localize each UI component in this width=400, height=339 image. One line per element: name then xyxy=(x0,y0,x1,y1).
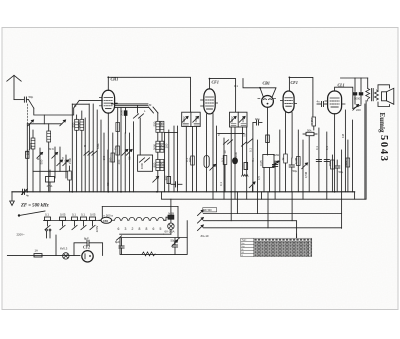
svg-text:150: 150 xyxy=(103,219,108,223)
svg-text:550: 550 xyxy=(72,122,76,127)
svg-text:300: 300 xyxy=(64,159,68,164)
svg-text:n 500 a: n 500 a xyxy=(104,214,114,218)
wire vertical xyxy=(96,110,98,192)
mains wire xyxy=(7,254,80,256)
capacitor tone 2 xyxy=(359,78,363,104)
transformer secondary zigzag xyxy=(375,90,379,100)
IF transformer 2 box xyxy=(182,112,201,126)
svg-text:0,1: 0,1 xyxy=(315,146,319,150)
oscillator box xyxy=(138,155,153,171)
capacitor on bus xyxy=(22,189,28,195)
coil L2 oscillator xyxy=(47,124,51,192)
coil IF1 secondary xyxy=(160,121,164,141)
resistor filter zigzag xyxy=(142,252,155,256)
wire vertical xyxy=(252,123,254,192)
svg-text:300: 300 xyxy=(160,121,164,126)
resistor R right xyxy=(346,140,350,192)
wire vertical xyxy=(230,127,232,192)
NSB resistor xyxy=(164,215,174,223)
svg-text:100: 100 xyxy=(102,155,106,160)
variable capacitor gang 2 xyxy=(52,147,58,178)
speaker xyxy=(378,85,394,107)
svg-text:5n: 5n xyxy=(251,158,255,162)
svg-text:6V0,3: 6V0,3 xyxy=(60,247,68,251)
capacitor C coupling black xyxy=(121,108,127,192)
switch heater a xyxy=(116,236,121,240)
volume pot box xyxy=(263,155,279,168)
coil zigzag horizontal xyxy=(242,174,249,176)
mains plug leads xyxy=(46,229,51,238)
svg-text:3002: 3002 xyxy=(182,116,186,123)
svg-text:4n: 4n xyxy=(26,194,30,198)
wire CB1 down xyxy=(267,107,269,155)
bus 2 lower xyxy=(162,101,367,200)
wire output top xyxy=(341,77,368,79)
svg-text:50: 50 xyxy=(106,182,110,186)
table row labels xyxy=(242,240,248,258)
wire filter rect feed xyxy=(186,221,188,238)
svg-text:4711: 4711 xyxy=(47,184,53,188)
resistor R ant xyxy=(26,151,29,158)
title Eumig 5043 xyxy=(378,113,389,162)
svg-text:50µ: 50µ xyxy=(171,239,176,243)
wire CH1 cathode down xyxy=(107,113,109,192)
svg-text:3000: 3000 xyxy=(160,143,164,150)
wire hline 5 xyxy=(203,221,296,238)
wire CF1 top loop xyxy=(210,79,236,112)
wire vertical xyxy=(173,126,175,192)
svg-text:0,1: 0,1 xyxy=(249,148,253,152)
svg-text:300: 300 xyxy=(164,175,168,180)
capacitor C pad xyxy=(171,182,182,187)
coil L4 xyxy=(80,111,84,192)
resistor R cath cl1 xyxy=(331,155,335,192)
switch wafer 2 xyxy=(88,104,93,192)
svg-text:3: 3 xyxy=(125,227,127,231)
cap c l1 xyxy=(316,128,321,192)
wire vertical xyxy=(185,127,187,192)
svg-text:0,1: 0,1 xyxy=(72,213,76,217)
svg-text:5000: 5000 xyxy=(120,109,124,116)
table connection line xyxy=(296,234,298,238)
svg-text:50p: 50p xyxy=(29,95,34,99)
wire vertical left xyxy=(26,124,28,192)
wire vertical lamp top xyxy=(170,199,172,215)
tube electrode stubs xyxy=(99,98,345,107)
ground symbol left xyxy=(10,192,15,206)
svg-text:M K: M K xyxy=(49,147,54,151)
wire vertical 345 xyxy=(344,110,346,192)
svg-text:5000: 5000 xyxy=(234,151,238,158)
wire CH1 grid line xyxy=(79,99,102,101)
wire long vertical right xyxy=(364,104,366,199)
svg-text:1500: 1500 xyxy=(68,157,72,164)
wire vertical xyxy=(157,152,159,159)
wire vertical xyxy=(157,171,159,192)
main ground bus xyxy=(12,191,355,193)
svg-text:220: 220 xyxy=(344,160,348,165)
resistor R if xyxy=(191,127,195,192)
svg-text:5000: 5000 xyxy=(354,97,361,101)
svg-text:8µF: 8µF xyxy=(115,240,120,244)
svg-text:50µ: 50µ xyxy=(339,170,344,174)
button 2 xyxy=(60,217,66,230)
svg-text:220V: 220V xyxy=(95,226,99,233)
trimmer tone xyxy=(353,104,361,110)
fuse mains xyxy=(34,254,42,257)
svg-text:1002: 1002 xyxy=(241,116,245,123)
trimmer below xyxy=(153,176,159,182)
wire vertical xyxy=(216,126,218,192)
switch contacts det xyxy=(241,139,252,146)
svg-text:ZG-10: ZG-10 xyxy=(201,234,209,238)
svg-text:50: 50 xyxy=(128,156,132,160)
wire vertical xyxy=(196,127,198,192)
svg-text:8: 8 xyxy=(139,227,141,231)
tube CH1 envelope xyxy=(102,90,115,113)
variable capacitor gang 4 xyxy=(33,155,69,178)
wire heater return ext xyxy=(164,233,171,235)
wire CB1 funnel xyxy=(260,88,276,97)
wire heater return xyxy=(120,233,164,235)
resistor R grid leak xyxy=(312,117,316,130)
wire vertical filter feed xyxy=(177,207,179,238)
CY2 anode loop xyxy=(74,243,103,256)
svg-text:Uf: Uf xyxy=(242,252,245,254)
resistor R coupling horizontal xyxy=(303,132,317,135)
coil column mid xyxy=(167,130,171,192)
wire vertical xyxy=(29,125,31,150)
wire vertical xyxy=(279,130,281,192)
wire stubs below bus xyxy=(213,192,327,228)
button 3 xyxy=(72,217,78,230)
svg-text:4n: 4n xyxy=(317,100,321,104)
svg-text:0,05: 0,05 xyxy=(259,160,263,166)
wire CL1 top xyxy=(335,87,353,108)
switch heater b xyxy=(174,238,179,242)
tiny rotated value labels xyxy=(26,109,349,232)
svg-text:8: 8 xyxy=(146,227,148,231)
svg-text:0,1M: 0,1M xyxy=(310,118,314,125)
svg-text:550: 550 xyxy=(153,121,157,126)
wire CF1b top loop xyxy=(289,77,313,116)
cap c l2 xyxy=(324,132,329,192)
trimmer pad 2 xyxy=(126,133,132,192)
IF transformer 3 box xyxy=(230,112,248,127)
wire vertical xyxy=(111,133,115,192)
switch band selector to CH1 grid xyxy=(74,100,80,108)
svg-text:220: 220 xyxy=(356,108,361,112)
wire vertical xyxy=(246,127,248,192)
tube CL1 envelope xyxy=(328,91,342,114)
antenna xyxy=(7,75,24,99)
svg-text:0,1: 0,1 xyxy=(185,158,189,162)
svg-text:6V 0,3A: 6V 0,3A xyxy=(165,230,175,234)
svg-text:1MΩ: 1MΩ xyxy=(273,153,279,157)
svg-text:10p: 10p xyxy=(255,117,260,121)
wire band bus xyxy=(72,103,89,105)
resistor R osc xyxy=(68,166,72,192)
wire CF1b cathode xyxy=(285,113,287,154)
coil IF1 primary xyxy=(156,113,160,132)
variable capacitor gang 1 xyxy=(37,148,43,192)
svg-text:500: 500 xyxy=(40,159,44,164)
switch ZF contact xyxy=(18,211,45,216)
capacitor avc xyxy=(273,165,278,167)
svg-text:3002: 3002 xyxy=(230,116,234,123)
svg-text:0,1: 0,1 xyxy=(221,158,225,162)
coil osc A xyxy=(156,141,164,152)
svg-text:220V~: 220V~ xyxy=(17,233,26,237)
wire hline 3 xyxy=(102,206,178,208)
coil osc B xyxy=(156,160,164,171)
svg-text:500: 500 xyxy=(109,157,113,162)
svg-text:0,1: 0,1 xyxy=(219,182,223,186)
resistor R ca xyxy=(223,156,227,192)
wire vertical xyxy=(71,104,73,192)
pushbutton row wire xyxy=(44,220,102,222)
coil L3 xyxy=(75,115,79,192)
svg-text:5043: 5043 xyxy=(378,135,389,161)
coil L1 xyxy=(31,138,35,149)
svg-text:3077: 3077 xyxy=(29,142,33,149)
svg-text:50µ: 50µ xyxy=(293,169,298,173)
button 5 xyxy=(90,217,96,230)
svg-text:200: 200 xyxy=(117,159,121,164)
trimmer C tuning 1 xyxy=(28,120,34,126)
svg-text:100: 100 xyxy=(164,143,168,148)
svg-text:6: 6 xyxy=(153,227,155,231)
capacitor tone 1 xyxy=(353,78,357,104)
wire vertical xyxy=(100,120,102,192)
bus corner right xyxy=(354,192,356,199)
svg-text:ZF = 500 kHz: ZF = 500 kHz xyxy=(20,204,49,209)
svg-text:5: 5 xyxy=(160,227,162,231)
svg-text:0,5: 0,5 xyxy=(257,176,261,180)
tube CY2 rectifier xyxy=(82,251,93,262)
svg-text:800: 800 xyxy=(153,162,157,167)
resistor R cathode xyxy=(107,150,109,192)
wire vertical cl xyxy=(341,150,343,228)
wire osc link xyxy=(165,132,178,134)
svg-text:30: 30 xyxy=(223,150,227,154)
svg-text:Type: Type xyxy=(242,240,248,242)
wire to CB1 anode xyxy=(243,79,261,89)
svg-text:CF1: CF1 xyxy=(212,80,219,85)
wire hline 6 xyxy=(203,227,341,229)
wire grid bus double xyxy=(112,104,149,108)
heater chain wavy xyxy=(112,217,166,220)
switch arrows band left xyxy=(198,210,204,231)
switch wafer 1 xyxy=(84,118,89,192)
wire vertical oval drop xyxy=(101,207,103,218)
wire vertical xyxy=(291,113,293,159)
wire vertical xyxy=(269,168,271,192)
trimmer if3 xyxy=(249,182,255,192)
capacitor antenna coupling xyxy=(24,97,28,102)
wire vertical xyxy=(257,140,259,192)
wire det link xyxy=(218,132,244,134)
svg-text:1M: 1M xyxy=(341,133,345,138)
wire vertical xyxy=(242,127,244,174)
resistor R det xyxy=(266,135,270,143)
svg-text:CH1: CH1 xyxy=(111,77,119,82)
tube CF1b envelope xyxy=(283,91,294,113)
svg-text:CB1: CB1 xyxy=(263,81,270,86)
wire xyxy=(32,149,34,192)
tube CF1 envelope xyxy=(204,89,215,114)
svg-text:50k: 50k xyxy=(307,128,312,132)
switch wafer 3 xyxy=(92,104,97,192)
svg-text:0,1: 0,1 xyxy=(234,84,238,88)
capacitor elec + xyxy=(289,158,294,192)
svg-text:0,05: 0,05 xyxy=(60,213,66,217)
svg-text:0,1: 0,1 xyxy=(325,146,329,150)
svg-text:1002: 1002 xyxy=(194,116,198,123)
switch contacts mid xyxy=(223,138,232,192)
wire vertical xyxy=(302,140,304,192)
capacitor to CB1 xyxy=(253,120,262,125)
wire vertical xyxy=(133,122,135,192)
svg-text:1A: 1A xyxy=(35,249,39,253)
svg-text:3000: 3000 xyxy=(153,143,157,150)
wire CF1 cathode xyxy=(212,114,214,192)
wire xyxy=(32,130,34,138)
capacitor elec 8uF xyxy=(119,238,124,254)
filter loop rect xyxy=(120,238,187,255)
trimmer avc xyxy=(210,164,216,170)
resistor R det2 xyxy=(244,163,248,170)
svg-text:150: 150 xyxy=(328,161,332,166)
wire vertical mains up xyxy=(55,235,57,255)
resistor output zigzag xyxy=(366,78,370,101)
wire antenna bus xyxy=(34,108,74,115)
capacitor cy2 xyxy=(87,240,89,245)
svg-text:ZF 500: ZF 500 xyxy=(204,209,212,212)
fuse row rect 1 xyxy=(45,217,51,230)
svg-text:Eumig: Eumig xyxy=(378,113,386,134)
svg-text:1000: 1000 xyxy=(160,161,164,168)
resistor R anode cf2 xyxy=(297,130,301,192)
svg-text:1000: 1000 xyxy=(140,162,144,169)
wire vertical xyxy=(164,133,166,192)
resistor R cath cf2 xyxy=(284,154,288,192)
electrolytic cap oval xyxy=(204,114,209,192)
wire vertical xyxy=(177,126,179,192)
dial lamp xyxy=(168,223,174,234)
svg-text:6: 6 xyxy=(118,227,120,231)
pilot lamp mains xyxy=(63,253,69,259)
trimmer osc pad xyxy=(122,133,128,192)
wire vertical xyxy=(103,133,105,192)
switch antenna xyxy=(29,100,34,108)
wire drop to trimmer line xyxy=(43,115,45,124)
wire CL1 cathode xyxy=(334,114,336,192)
svg-text:0,5M: 0,5M xyxy=(304,171,308,178)
cap black blob xyxy=(233,127,238,192)
switch contact pair mid xyxy=(133,105,143,118)
svg-text:CL1: CL1 xyxy=(338,83,345,88)
svg-text:0,1: 0,1 xyxy=(81,213,85,217)
button 4 xyxy=(81,217,87,230)
wire CH1 anode top loop xyxy=(108,77,190,112)
svg-text:0,05: 0,05 xyxy=(90,213,96,217)
trimmer af xyxy=(302,163,308,169)
component value table xyxy=(241,238,312,256)
wire vertical xyxy=(308,136,310,192)
svg-text:50: 50 xyxy=(243,133,247,137)
svg-text:NSB: NSB xyxy=(168,212,174,216)
wire vertical xyxy=(352,120,354,192)
svg-text:8µF: 8µF xyxy=(84,237,89,241)
wire tuning line xyxy=(27,123,62,125)
tube CB1 round xyxy=(262,96,274,108)
capacitor elec 50uF xyxy=(172,238,178,254)
svg-text:CF1: CF1 xyxy=(291,80,298,85)
iron core box xyxy=(46,170,55,192)
resistor R screen xyxy=(116,108,120,192)
IF note box xyxy=(203,208,217,212)
svg-text:KML: KML xyxy=(96,143,100,149)
wire vertical xyxy=(139,118,141,155)
wire hline 4 xyxy=(203,213,341,215)
wire vertical xyxy=(263,168,265,192)
mechanical link dashed xyxy=(26,104,28,124)
svg-text:0,1: 0,1 xyxy=(45,213,49,217)
tiny value labels xyxy=(17,84,362,253)
capacitor elec cl1 xyxy=(335,160,340,192)
wire CL1 grid cap xyxy=(317,101,328,106)
svg-text:K: K xyxy=(62,156,64,160)
wire vertical xyxy=(274,161,276,192)
svg-text:0,3M: 0,3M xyxy=(294,157,298,164)
svg-text:2: 2 xyxy=(132,227,134,231)
switch contact pair xyxy=(149,107,159,113)
svg-text:6000: 6000 xyxy=(77,121,81,128)
trimmer C tuning 2 xyxy=(60,120,66,126)
barretter oval xyxy=(99,217,112,223)
wire vertical xyxy=(157,132,159,141)
svg-text:Eo: Eo xyxy=(114,146,118,150)
variable capacitor gang 3 xyxy=(57,147,63,171)
transformer core xyxy=(372,89,374,101)
svg-text:CY2: CY2 xyxy=(83,245,90,250)
